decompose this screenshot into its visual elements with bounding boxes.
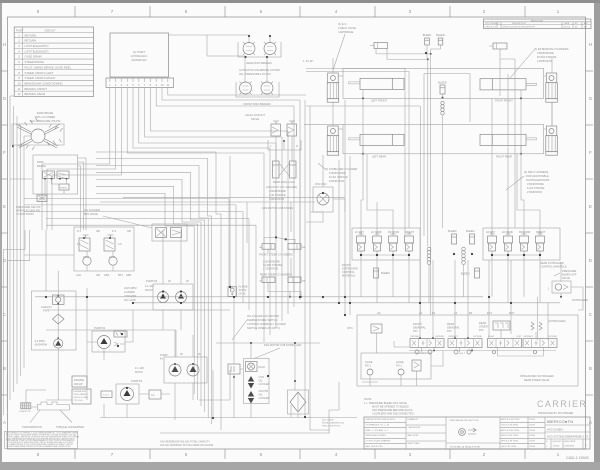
actuation note [239, 68, 280, 76]
svg-text:7/2005: 7/2005 [529, 441, 536, 443]
svg-text:DEMORAL: DEMORAL [447, 326, 460, 330]
svg-text:HYD SCHEM: HYD SCHEM [547, 428, 563, 432]
svg-text:FOR ADJUSTABLE: FOR ADJUSTABLE [526, 174, 549, 178]
svg-text:3.50/38 BORE: 3.50/38 BORE [537, 51, 554, 55]
svg-text:REAR STEER VALVE: REAR STEER VALVE [524, 378, 550, 382]
svg-text:2200 RPM: 2200 RPM [124, 294, 136, 298]
svg-text:GPM: GPM [109, 255, 115, 259]
svg-text:THIRD ANGLE PROJECTION: THIRD ANGLE PROJECTION [449, 419, 479, 422]
svg-text:MFG 8-4 SS 7/9/05: MFG 8-4 SS 7/9/05 [501, 441, 519, 443]
lockout wires [276, 136, 292, 161]
svg-text:4:1: 4:1 [151, 393, 155, 397]
title block [364, 417, 590, 449]
svg-text:D: D [589, 258, 592, 263]
svg-text:REAR DISC BRAKES: REAR DISC BRAKES [246, 61, 272, 65]
pump1 wires [175, 330, 193, 420]
svg-text:BYP VALVE: BYP VALVE [84, 212, 98, 216]
svg-text:BLEED: BLEED [423, 33, 432, 37]
svg-text:87.063 STROKE: 87.063 STROKE [537, 55, 557, 59]
park brake box right wires [78, 158, 87, 230]
bleed fittings top pair [423, 33, 445, 45]
right rear cylinder [480, 134, 537, 158]
svg-text:ROT: ROT [509, 311, 515, 315]
svg-text:EXT: EXT [487, 311, 492, 315]
svg-text:REAR AXLE LOCK: REAR AXLE LOCK [273, 180, 295, 184]
pump A wires [163, 230, 181, 330]
bottom bus y433 [160, 432, 330, 434]
svg-text:(OUTR/GGER): (OUTR/GGER) [548, 319, 566, 323]
svg-text:G: G [3, 96, 7, 101]
revision table [484, 19, 592, 29]
svg-text:MANIFOLD: MANIFOLD [132, 58, 147, 62]
svg-text:DEMORAL: DEMORAL [413, 326, 426, 330]
front cylinder row enclosure [343, 68, 544, 98]
svg-text:2F: 2F [180, 352, 183, 356]
svg-text:PS-1: PS-1 [396, 364, 402, 368]
svg-text:PRODUCED BY ROUTRIGER: PRODUCED BY ROUTRIGER [538, 411, 573, 415]
front manifold feed verticals [361, 98, 393, 236]
small gear box [149, 390, 161, 399]
wire from cylinder to bleed dots [376, 49, 431, 60]
gauge sub-box [361, 353, 431, 379]
outboard cylinder right lower [546, 126, 557, 136]
stabilizer cylinder note [325, 167, 358, 183]
svg-text:D/AO: D/AO [259, 365, 265, 369]
center feed bus lines [24, 197, 345, 330]
pump #4 [116, 379, 143, 404]
svg-text:H: H [589, 42, 592, 47]
svg-text:2.50/38 BORE: 2.50/38 BORE [263, 260, 280, 264]
svg-text:DWG NO: DWG NO [553, 441, 563, 443]
pump2 wires [87, 288, 133, 400]
pressure switch note [16, 205, 41, 216]
svg-text:BLEED: BLEED [466, 229, 475, 233]
svg-text:GA6/CA7: GA6/CA7 [41, 305, 53, 309]
rear cylinder row enclosure [343, 124, 544, 154]
svg-text:PUMP #3: PUMP #3 [146, 279, 158, 283]
svg-text:ENG 8-4 DR 7/9/05: ENG 8-4 DR 7/9/05 [501, 435, 519, 437]
svg-text:MATL SPEC: MATL SPEC [408, 434, 420, 437]
svg-text:REAR OUTRIGGER: REAR OUTRIGGER [540, 261, 564, 265]
svg-text:DRAWN BY: DRAWN BY [408, 418, 419, 421]
svg-text:APPD 8-4 JW 7/7/05: APPD 8-4 JW 7/7/05 [501, 418, 520, 421]
svg-text:APP: APP [584, 22, 589, 25]
extension cylinder note [534, 47, 569, 63]
cooler fan temp switch note [247, 314, 286, 330]
small cylinder symbol (right) [489, 43, 515, 59]
svg-text:INTEGRATED OUTRIGGER/: INTEGRATED OUTRIGGER/ [520, 374, 554, 378]
svg-text:TYP. IDLE: TYP. IDLE [74, 400, 84, 402]
svg-text:E: E [589, 204, 592, 209]
spool valve rear steer [488, 336, 523, 348]
svg-text:OSC FAN: OSC FAN [315, 182, 327, 186]
rear outrigger control manifold [483, 228, 560, 260]
svg-text:A2: A2 [454, 311, 458, 315]
svg-text:PARK BRAKE: PARK BRAKE [37, 111, 54, 115]
engine box [72, 376, 87, 387]
svg-text:1 ▷ PRESSURE BLEED OFF VALVE: 1 ▷ PRESSURE BLEED OFF VALVE [364, 401, 407, 405]
svg-text:GAGE: GAGE [396, 360, 404, 364]
svg-text:P/N: P/N [413, 329, 417, 333]
svg-text:RR STAB: RR STAB [519, 230, 530, 234]
svg-text:2.5: 2.5 [118, 242, 122, 246]
oil cooler bypass valve [84, 208, 187, 241]
svg-text:300 HP: 300 HP [74, 382, 83, 386]
svg-text:SWITCH OPENS AT (207 F): SWITCH OPENS AT (207 F) [247, 326, 280, 330]
svg-text:1:1.128: 1:1.128 [135, 366, 144, 370]
ratio text [145, 284, 154, 292]
svg-text:A: A [3, 420, 6, 425]
cartridge drop wires [361, 255, 540, 303]
manifold port bar [106, 78, 174, 88]
pump column enclosure [32, 291, 77, 350]
svg-text:HYD 2: HYD 2 [420, 353, 427, 355]
svg-text:WITH CYLINDER: WITH CYLINDER [35, 115, 56, 119]
svg-text:BRAKES/AIR CONDITIONING: BRAKES/AIR CONDITIONING [25, 81, 63, 85]
svg-text:TEMPERATURE SWITCH: TEMPERATURE SWITCH [247, 318, 277, 322]
svg-text:E: E [3, 204, 6, 209]
left front cylinder [349, 78, 405, 102]
front outrigger control manifold [352, 228, 420, 260]
svg-text:3.50/38 BORE: 3.50/38 BORE [527, 182, 544, 186]
svg-text:(4) EXTENSION CYLINDERS: (4) EXTENSION CYLINDERS [534, 47, 569, 51]
manifold port labels [76, 273, 132, 277]
svg-text:GB: GB [127, 229, 131, 233]
svg-text:CK VL: CK VL [239, 292, 247, 296]
svg-text:CARTRIDGE: CARTRIDGE [338, 30, 353, 34]
svg-text:11: 11 [18, 87, 21, 91]
svg-text:6.50/38 BORE: 6.50/38 BORE [329, 171, 346, 175]
svg-text:AVL. PRESSURE 1172 PSI: AVL. PRESSURE 1172 PSI [239, 72, 271, 76]
staircase verticals to bottom [0, 0, 1, 1]
svg-text:TEN CODE FITTG: TEN CODE FITTG [322, 426, 341, 428]
svg-text:B1: B1 [432, 311, 436, 315]
svg-text:OUTRIGGER: OUTRIGGER [572, 298, 588, 302]
svg-text:LF EXT: LF EXT [355, 230, 364, 234]
svg-text:MATL SEE NOTES: MATL SEE NOTES [366, 445, 384, 448]
pump #2 [92, 326, 127, 352]
svg-text:BRAKES, FRONT: BRAKES, FRONT [25, 87, 48, 91]
assembly junction dots [419, 337, 473, 351]
svg-text:14.287 STROKE: 14.287 STROKE [263, 263, 283, 267]
bleed fitting rear bank [461, 268, 480, 278]
svg-text:STEER/SWING: STEER/SWING [25, 60, 45, 64]
rear steer pn box [479, 321, 510, 332]
ratio box [101, 391, 112, 398]
svg-text:LOADED: LOADED [124, 290, 135, 294]
manifold output wires (right fan) [127, 88, 306, 154]
svg-text:ENGINE RPM: ENGINE RPM [74, 391, 87, 393]
tank wires [26, 390, 46, 407]
center long verticals [230, 100, 350, 433]
svg-text:GB: GB [96, 229, 100, 233]
park brake valve box [33, 155, 78, 194]
svg-text:(4) 1.5/16W: (4) 1.5/16W [322, 420, 334, 422]
svg-text:REAR: REAR [479, 321, 486, 325]
svg-text:HEAT TREAT: HEAT TREAT [408, 442, 421, 445]
svg-text:OIL: OIL [259, 379, 264, 383]
ruler tick marks and zone numbers [75, 6, 525, 459]
svg-text:E. SEE 505B4/F9936E FOR ELECTR: E. SEE 505B4/F9936E FOR ELECTRICAL SCHEM… [6, 445, 71, 448]
svg-text:CNV/TR: CNV/TR [259, 389, 269, 393]
svg-text:MUST BE OPENED TO BLEED: MUST BE OPENED TO BLEED [372, 405, 409, 409]
temp switch valve [228, 364, 240, 378]
check valve cartridge note [338, 22, 356, 34]
svg-text:A: A [589, 420, 592, 425]
svg-text:VALVE: VALVE [562, 276, 570, 280]
coil symbol left [427, 247, 431, 264]
svg-text:RATIO: RATIO [135, 370, 143, 374]
svg-text:UNLESS NOTED DIMS IN INCH: UNLESS NOTED DIMS IN INCH [366, 419, 396, 421]
svg-text:RIGHT FRONT: RIGHT FRONT [495, 99, 513, 103]
svg-text:OIL: OIL [259, 393, 264, 397]
svg-text:ENGINE: ENGINE [74, 378, 84, 382]
svg-text:REVISIONS: REVISIONS [531, 20, 543, 22]
svg-text:COUPLERS ARE DISCONNECTED: COUPLERS ARE DISCONNECTED [372, 412, 414, 416]
svg-text:F: F [589, 150, 592, 155]
cylinder head feed wires [333, 58, 552, 129]
svg-text:2.50/38 ROD: 2.50/38 ROD [527, 190, 542, 194]
svg-text:C: C [589, 312, 592, 317]
park brake assembly [12, 111, 64, 150]
axle lockout cylinders [266, 161, 297, 201]
svg-text:PRESSURE: PRESSURE [562, 269, 577, 273]
svg-text:H: H [3, 42, 6, 47]
svg-text:PORT: PORT [16, 29, 24, 33]
svg-text:MANIFOLD: MANIFOLD [342, 274, 356, 278]
svg-text:7/2005: 7/2005 [529, 435, 536, 437]
svg-text:BLEED: BLEED [461, 272, 470, 276]
left bus lower verticals [3, 230, 29, 415]
pump group #3 (pair) [146, 279, 193, 310]
svg-text:CHECK VALVE: CHECK VALVE [338, 26, 356, 30]
svg-text:8/28/2005: 8/28/2005 [565, 446, 576, 448]
svg-text:OP b: OP b [347, 326, 353, 330]
svg-text:P-2: P-2 [112, 229, 117, 233]
descending bus verticals right group [264, 100, 300, 342]
svg-text:GPM: GPM [83, 255, 89, 259]
integrated outrigger rear-steer valve assembly outline [357, 315, 578, 386]
hose note [322, 420, 344, 428]
svg-text:STEER: STEER [479, 325, 488, 329]
main horizontal bus y303 [133, 302, 560, 304]
front demoral pn [413, 322, 426, 333]
svg-text:HYD SYSTEM 505B4/F9936E-2 T4: HYD SYSTEM 505B4/F9936E-2 T4 [547, 435, 588, 439]
svg-text:6.00/38 ROD: 6.00/38 ROD [329, 179, 344, 183]
svg-text:BLEED: BLEED [448, 229, 457, 233]
svg-text:CHECKED BY: CHECKED BY [408, 427, 422, 429]
svg-text:12: 12 [17, 92, 21, 96]
svg-text:TO RST R/0/40: TO RST R/0/40 [16, 212, 34, 216]
svg-text:BLEED: BLEED [438, 81, 447, 85]
svg-text:LTR CONCEPT: LTR CONCEPT [485, 23, 500, 25]
svg-text:R: R [296, 144, 298, 148]
assembly port labels [377, 311, 515, 315]
small cylinder (boom retract) [370, 43, 388, 49]
svg-text:214 GAL WORKING TO FULL MARK O: 214 GAL WORKING TO FULL MARK ON GAUGE [160, 444, 214, 447]
junction dots on buses [45, 52, 541, 419]
svg-text:ACTUATION VOL/BRAKE CN PER: ACTUATION VOL/BRAKE CN PER [239, 68, 280, 72]
svg-text:OPENS AT 2650 PSI: OPENS AT 2650 PSI [16, 209, 40, 213]
steer wire drops [264, 202, 295, 253]
svg-text:2F: 2F [186, 279, 189, 283]
relief springs [531, 322, 542, 330]
horizontal bus y310 [46, 309, 230, 311]
svg-text:PUMP #4: PUMP #4 [131, 379, 143, 383]
svg-text:APPD 8-4 BK 7/9/05: APPD 8-4 BK 7/9/05 [501, 429, 520, 432]
svg-text:CASE DRAIN: CASE DRAIN [25, 55, 42, 59]
engine rpm box [72, 389, 91, 404]
svg-text:2:1 RPM: 2:1 RPM [35, 339, 45, 343]
pump group #1 (pair) [160, 352, 207, 383]
svg-text:BLEED OFF: BLEED OFF [562, 273, 577, 277]
svg-text:COOLER: COOLER [259, 396, 270, 400]
right corner wires [304, 69, 470, 316]
left bus junction dot [12, 145, 14, 147]
svg-text:LIFT/TELE(HOIST): LIFT/TELE(HOIST) [25, 49, 49, 53]
coil under bleed [441, 101, 444, 115]
svg-text:CONTROL MANIFOLD: CONTROL MANIFOLD [540, 265, 567, 269]
front steer cylinders [259, 244, 306, 257]
svg-text:LAH: LAH [76, 273, 81, 277]
outboard cylinder right upper [546, 73, 557, 83]
svg-text:1.75/38 ROD: 1.75/38 ROD [263, 267, 278, 271]
svg-text:CARRIER: CARRIER [537, 399, 587, 409]
parts list table [14, 27, 93, 97]
rear manifold feed verticals [492, 74, 540, 236]
svg-text:(4) RIM CYLINDERS: (4) RIM CYLINDERS [524, 170, 548, 174]
left rear cylinder [349, 134, 405, 158]
hydraulic tank [19, 403, 32, 414]
front manifold label [342, 263, 358, 278]
svg-text:FRONT STEER CYLINDERS: FRONT STEER CYLINDERS [259, 253, 293, 257]
svg-text:WHL PRESSURE 375 PSI: WHL PRESSURE 375 PSI [30, 119, 61, 123]
rpm text [124, 286, 137, 302]
svg-text:7/2005: 7/2005 [529, 425, 536, 427]
svg-text:PS-1: PS-1 [365, 364, 371, 368]
svg-text:6-3/4 STROKE: 6-3/4 STROKE [527, 186, 545, 190]
bleed fitting below front manifold [374, 268, 390, 278]
general notes block [5, 431, 78, 448]
outboard cylinder left lower [328, 126, 339, 136]
bleed fittings pair mid [448, 229, 475, 244]
svg-text:P/N: P/N [479, 328, 483, 332]
svg-text:EXTEND: EXTEND [474, 336, 483, 338]
integrated label [520, 374, 554, 382]
svg-text:LR EXT: LR EXT [486, 230, 495, 234]
svg-text:RETURN: RETURN [25, 39, 37, 43]
leader line [510, 50, 534, 78]
pressure switch symbol [37, 195, 47, 202]
svg-text:FRAC +/- 1/16 ANG +/- 1: FRAC +/- 1/16 ANG +/- 1 [366, 429, 389, 432]
pressure bleed note [364, 397, 414, 416]
spool pilot circles [415, 350, 537, 355]
svg-text:QA 8-7 BL 7/9/05: QA 8-7 BL 7/9/05 [501, 445, 517, 448]
svg-text:(4) E.O.: (4) E.O. [338, 22, 347, 26]
svg-text:P/N: P/N [447, 329, 451, 333]
svg-text:EXTEND: EXTEND [549, 336, 558, 338]
svg-text:RIGHT REAR: RIGHT REAR [496, 155, 512, 159]
svg-text:B2: B2 [469, 311, 473, 315]
svg-text:CKD 8-4 LM 7/8/05: CKD 8-4 LM 7/8/05 [501, 425, 519, 427]
svg-text:7/2005: 7/2005 [529, 419, 536, 421]
main horizontal bus y297 [35, 296, 483, 298]
svg-text:TRANSMISSION: TRANSMISSION [22, 425, 42, 429]
left column wires [46, 230, 58, 400]
fan motor symbol [313, 182, 333, 212]
svg-text:FAN MOTOR 0.98 IN³/REV (AR): FAN MOTOR 0.98 IN³/REV (AR) [264, 343, 302, 347]
svg-text:BRAKES, REAR: BRAKES, REAR [25, 92, 46, 96]
svg-text:1/1000: 1/1000 [553, 446, 560, 448]
svg-text:CONTROL NORMALLY CLOSED: CONTROL NORMALLY CLOSED [247, 322, 286, 326]
center bleed drops [428, 54, 431, 315]
svg-text:BLEED: BLEED [436, 33, 445, 37]
svg-text:STEER, FRONT+RIGHT: STEER, FRONT+RIGHT [25, 76, 56, 80]
svg-text:TORQUE CONVERTER: TORQUE CONVERTER [56, 425, 84, 429]
svg-text:VALVE: VALVE [251, 117, 259, 121]
svg-text:GAGE: GAGE [365, 360, 373, 364]
svg-text:LF STAB: LF STAB [371, 230, 382, 234]
manifold output wires (left fan) [42, 88, 121, 231]
svg-text:MG: MG [584, 27, 588, 29]
assembly internal verticals [370, 315, 556, 386]
svg-text:PARK: PARK [37, 160, 44, 164]
svg-text:LEFT REAR: LEFT REAR [372, 155, 386, 159]
svg-text:PO-1: PO-1 [43, 309, 50, 313]
svg-text:A1: A1 [419, 311, 423, 315]
svg-text:RR EXT: RR EXT [536, 230, 546, 234]
svg-text:STEER, FRONT+LEFT: STEER, FRONT+LEFT [25, 71, 54, 75]
svg-text:RETURN: RETURN [25, 33, 37, 37]
bus staircase to lower center [96, 152, 221, 430]
svg-text:CONTROL: CONTROL [342, 270, 355, 274]
spool valve LF outrigger [410, 335, 444, 348]
svg-text:LR STAB: LR STAB [502, 230, 513, 234]
svg-text:AXLE LOCKOUT: AXLE LOCKOUT [245, 113, 265, 117]
bleed drop wires [427, 45, 441, 60]
svg-text:CIRCUIT: CIRCUIT [44, 29, 56, 33]
svg-text:10: 10 [17, 81, 21, 85]
outboard cylinder left upper [328, 73, 339, 83]
svg-text:1.40 STROKE: 1.40 STROKE [269, 193, 286, 197]
svg-text:DO NOT SCALE DRAWING: DO NOT SCALE DRAWING [366, 440, 391, 443]
hydraulic manifold block [110, 33, 169, 77]
svg-text:OIL COOLER FAN MOTOR: OIL COOLER FAN MOTOR [247, 314, 279, 318]
left edge vertical bus [10, 96, 24, 400]
svg-text:GB: GB [96, 273, 100, 277]
cooler check valve stack [244, 359, 270, 404]
reservoir note [160, 441, 214, 448]
filter diamond [53, 314, 65, 324]
svg-text:2400 NO LOAD: 2400 NO LOAD [74, 396, 89, 399]
rear disc brakes [169, 35, 282, 83]
svg-text:RATIO: RATIO [145, 288, 153, 292]
svg-text:F: F [3, 150, 6, 155]
svg-text:1.80/38 ROD: 1.80/38 ROD [269, 197, 284, 201]
rear steer cylinders [259, 272, 306, 298]
svg-text:NOTE:: NOTE: [364, 397, 372, 401]
pressure bleed-off valve [548, 269, 577, 293]
svg-text:HA: HA [377, 311, 381, 315]
rear manifold label [540, 261, 567, 269]
axle lockout valve [245, 113, 301, 150]
svg-text:2200 LOADED: 2200 LOADED [74, 393, 88, 396]
svg-text:PUMP #2: PUMP #2 [94, 326, 106, 330]
svg-text:P-1: P-1 [77, 229, 82, 233]
svg-text:HYD 2: HYD 2 [459, 353, 466, 355]
svg-text:RETRACT: RETRACT [524, 335, 535, 338]
svg-text:REAR: REAR [447, 322, 454, 326]
